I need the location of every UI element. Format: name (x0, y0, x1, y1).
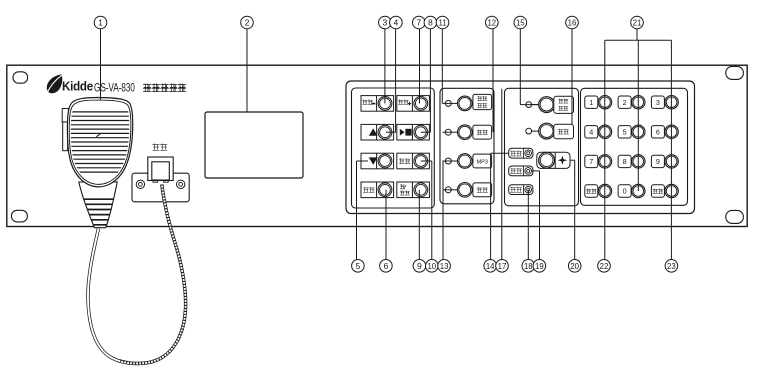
leader line 18 (527, 190, 529, 260)
grille center mark (96, 134, 100, 137)
leader line 1 to microphone (100, 29, 102, 100)
callout 11 (436, 16, 449, 29)
button menu 菜单 (397, 153, 430, 169)
leader line 19 (532, 170, 540, 172)
external-line 外线 LED (445, 187, 451, 193)
callout 14 (484, 260, 497, 273)
callout 12 (486, 16, 499, 29)
jack label 话筒 (152, 144, 159, 151)
indicator working 工作 (509, 148, 533, 158)
svg-text:15: 15 (516, 19, 525, 28)
key 4 (585, 126, 598, 138)
leader line 20 (570, 159, 575, 161)
mounting hole bottom-right (726, 210, 744, 223)
key 9 (651, 155, 664, 167)
callout 9 (413, 260, 426, 273)
key 1 (585, 96, 598, 108)
svg-text:7: 7 (589, 157, 593, 166)
emergency-broadcast 紧急广播 row connector (443, 102, 458, 104)
svg-text:12: 12 (487, 19, 496, 28)
key confirm 确认 (651, 185, 664, 197)
svg-text:5: 5 (623, 127, 627, 136)
svg-text:2: 2 (623, 98, 627, 107)
leader line 3 (384, 29, 386, 104)
emergency-broadcast 紧急广播 LED (445, 100, 451, 106)
leader line 14 (491, 152, 509, 154)
callout 23 (665, 260, 678, 273)
paging 寻呼 row connector (443, 131, 458, 133)
key 3 (651, 96, 664, 108)
plate screw right (177, 180, 185, 188)
LCD display window (205, 112, 303, 178)
callout 4 (390, 16, 403, 29)
svg-text:1: 1 (589, 98, 593, 107)
svg-text:21: 21 (633, 19, 642, 28)
svg-text:19: 19 (535, 262, 544, 271)
network-start 网络/启动 button (532, 104, 540, 106)
Kidde logo leaf (47, 75, 63, 94)
mic jack outer (148, 157, 173, 181)
button volume-down 音量- (361, 96, 394, 112)
callout 19 (533, 260, 546, 273)
microphone head inner outline (69, 100, 131, 184)
group 2 panel (440, 88, 494, 204)
callout 6 (380, 260, 393, 273)
button volume-up 音量+ (397, 96, 430, 112)
svg-text:7: 7 (416, 18, 421, 28)
svg-text:13: 13 (440, 262, 449, 271)
svg-text:0: 0 (623, 187, 627, 196)
key 0 (618, 185, 631, 197)
emergency-broadcast 紧急广播 button (458, 96, 473, 111)
leader line 15 (519, 29, 521, 105)
button down-arrow ▼ (361, 153, 394, 169)
leader line 11 (441, 29, 443, 104)
svg-text:8: 8 (428, 18, 433, 28)
svg-text:8: 8 (623, 157, 627, 166)
leader line 13 (442, 161, 444, 260)
callout 5 (352, 260, 365, 273)
callout 8 (424, 16, 437, 29)
paging 寻呼 LED (445, 129, 451, 135)
svg-text:Kidde: Kidde (62, 79, 93, 94)
leader line 9 (418, 190, 420, 260)
callout 15 (514, 16, 527, 29)
svg-text:4: 4 (589, 127, 593, 136)
mic cable hatched portion (119, 185, 186, 364)
callout 17 (496, 260, 509, 273)
svg-text:6: 6 (384, 261, 389, 271)
manual 手动 button (532, 130, 540, 132)
MP3 LED (445, 158, 451, 164)
key 7 (585, 155, 598, 167)
svg-text:16: 16 (568, 19, 577, 28)
external-line 外线 button (458, 183, 473, 198)
svg-text:20: 20 (570, 262, 579, 271)
mic jack inner (152, 162, 170, 180)
mounting hole top-left (13, 72, 28, 83)
callout 7 (413, 16, 426, 29)
group 1 panel (352, 88, 435, 208)
microphone hanger clip (62, 109, 68, 123)
key 5 (618, 126, 631, 138)
mic cable outline (88, 185, 186, 364)
button play-stop ▶■ (397, 124, 430, 140)
callout 2 (241, 16, 254, 29)
leader line 8 (429, 29, 431, 132)
svg-text:2: 2 (245, 18, 250, 28)
callout 20 (568, 260, 581, 273)
plate screw left (136, 180, 144, 188)
button up-arrow ▲ (361, 124, 394, 140)
leader line 16 (571, 29, 573, 125)
main button panel (346, 81, 695, 214)
callout 18 (522, 260, 535, 273)
svg-text:3: 3 (656, 98, 660, 107)
svg-text:1: 1 (98, 18, 103, 28)
svg-text:3: 3 (383, 18, 388, 28)
leader line 17 (501, 89, 503, 260)
svg-text:9: 9 (417, 261, 422, 271)
microphone head outer shell (67, 98, 132, 187)
key exit 退出 (585, 185, 598, 197)
microphone handle (79, 182, 117, 228)
svg-text:4: 4 (394, 18, 399, 28)
leader line 2 to display (246, 29, 248, 112)
MP3 row connector (443, 160, 458, 162)
indicator fault 故障 (509, 185, 533, 195)
key 6 (651, 126, 664, 138)
svg-text:14: 14 (486, 262, 495, 271)
svg-text:18: 18 (524, 262, 533, 271)
svg-text:23: 23 (667, 262, 676, 271)
callout 10 (426, 260, 439, 273)
key 2 (618, 96, 631, 108)
button day-night 日/夜间 (397, 182, 430, 198)
MP3 button (458, 154, 473, 169)
svg-text:10: 10 (427, 262, 436, 271)
leader bracket 21 (636, 29, 638, 40)
leader line 7 (419, 29, 421, 104)
group 3 panel (505, 88, 579, 206)
mounting hole bottom-left (11, 210, 27, 222)
svg-text:5: 5 (356, 261, 361, 271)
leader line 10 (431, 161, 433, 260)
leader line 4 (395, 29, 397, 132)
svg-text:9: 9 (656, 157, 660, 166)
svg-text:22: 22 (600, 262, 609, 271)
keypad panel (581, 88, 688, 205)
external-line 外线 row connector (443, 189, 458, 191)
svg-text:11: 11 (438, 19, 446, 28)
callout 16 (566, 16, 579, 29)
model text CJK 广播控制盘 (143, 83, 151, 91)
svg-text:MP3: MP3 (476, 159, 488, 165)
paging 寻呼 button (458, 125, 473, 140)
svg-text:17: 17 (498, 262, 507, 271)
leader line 5 (357, 160, 369, 162)
callout 22 (598, 260, 611, 273)
leader line 6 (385, 190, 387, 260)
button settings 设置 (361, 182, 394, 198)
callout 3 (379, 16, 392, 29)
callout 21 (631, 16, 644, 29)
callout 1 (94, 16, 107, 29)
leader line 12 (492, 29, 494, 132)
mounting hole top-right (726, 66, 744, 79)
plus star symbol (558, 156, 568, 165)
chassis front panel (7, 65, 747, 226)
callout 13 (438, 260, 451, 273)
svg-text:6: 6 (656, 127, 660, 136)
plus button unit (537, 152, 570, 168)
key 8 (618, 155, 631, 167)
indicator monitor 查看 (509, 166, 533, 176)
connector plate (132, 173, 189, 202)
